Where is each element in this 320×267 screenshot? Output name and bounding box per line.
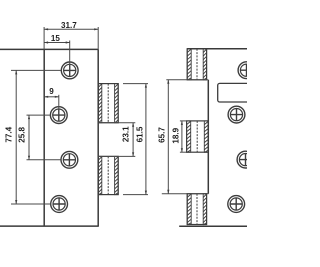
left view: screw hole 3	[61, 151, 78, 168]
left view: hinge leaf top edge	[0, 48, 98, 50]
left view: knuckle block 1 left hatch band	[98, 84, 102, 123]
svg-text:77.4: 77.4	[4, 126, 13, 142]
svg-text:9: 9	[49, 87, 54, 96]
right view: leaf top edge	[187, 48, 247, 50]
dimension 9 line	[44, 96, 59, 98]
dimension 18.9 line	[181, 121, 183, 152]
right view: barrel segment 2 outline	[187, 121, 209, 152]
right view: barrel segment 3 outline	[187, 194, 206, 225]
dimension 23.1 line	[132, 123, 134, 157]
left view: screw hole 4	[51, 196, 68, 213]
svg-text:23.1: 23.1	[121, 126, 130, 142]
svg-text:15: 15	[51, 34, 61, 43]
left view: knuckle block 2 pin centerline	[107, 156, 109, 194]
right view: barrel segment 3 pin centerline	[196, 194, 198, 225]
dimension 25.8 line	[28, 115, 30, 160]
left view: knuckle block 1 right hatch band	[115, 84, 119, 123]
left view: knuckle block 1 pin centerline	[107, 84, 109, 123]
right view: barrel segment 1 outline	[187, 49, 206, 80]
left view: knuckle block 2 outline	[98, 156, 118, 194]
right view: barrel segment 1 left hatch band	[187, 49, 191, 80]
left view: knuckle block 2 left hatch band	[98, 156, 102, 194]
left view: knuckle block 2 right hatch band	[115, 156, 119, 194]
right view: screw hole 2	[228, 106, 245, 123]
dimension 65.7 line	[167, 80, 169, 194]
dimension 77.4 extension lines	[11, 70, 61, 204]
right view: leaf front edge	[207, 80, 209, 194]
dimension 31.7 line	[44, 28, 98, 30]
right view: leaf bottom edge	[179, 225, 247, 227]
left view: knuckle block 1 outline	[98, 84, 118, 123]
dimension 31.7 extension lines	[44, 27, 98, 49]
right view: barrel segment 2 right hatch band	[204, 121, 208, 152]
right view: barrel segment 1 right hatch band	[203, 49, 206, 80]
left view: screw hole 2	[50, 107, 67, 124]
right view: barrel segment 3 right hatch band	[203, 194, 206, 225]
right view: screw hole 3 (cropped)	[237, 151, 254, 168]
svg-text:25.8: 25.8	[18, 127, 27, 143]
right view: screw hole 4	[228, 196, 245, 213]
dimension 15 line	[44, 42, 70, 44]
dimension 65.7 extension lines	[162, 80, 209, 194]
dimension 18.9 extension lines	[180, 121, 187, 152]
right view: screw hole 1 (cropped)	[238, 62, 255, 79]
left view: leaf fold line	[43, 49, 45, 226]
dimension 25.8 extension lines	[27, 115, 62, 160]
right view: barrel segment 1 pin centerline	[196, 49, 198, 80]
dimension 61.5 line	[145, 84, 147, 195]
svg-text:65.7: 65.7	[157, 127, 166, 143]
left view: screw hole 1	[61, 62, 78, 79]
dimension 77.4 line	[15, 70, 17, 204]
right view: barrel segment 2 left hatch band	[187, 121, 191, 152]
svg-text:18.9: 18.9	[171, 127, 180, 143]
dimension 61.5 extension lines	[123, 84, 148, 195]
right view: adjustment slot	[218, 83, 252, 102]
dimension 15 extension line	[69, 41, 71, 71]
dimension 9 extension line	[58, 95, 60, 115]
svg-text:31.7: 31.7	[61, 21, 77, 30]
left view: hinge leaf bottom edge	[0, 225, 99, 227]
right view: barrel segment 2 pin centerline	[196, 121, 198, 152]
left view: hinge leaf right edge	[97, 49, 99, 226]
right view: barrel segment 3 left hatch band	[187, 194, 191, 225]
svg-text:61.5: 61.5	[135, 126, 144, 142]
dimension 23.1 extension lines	[98, 123, 135, 157]
